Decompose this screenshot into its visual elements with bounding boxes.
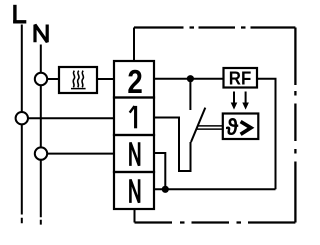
svg-text:2: 2 (127, 64, 142, 101)
RF receiver box RF (224, 68, 258, 89)
RF signal arrow 1 (231, 92, 238, 110)
switch fixed contact (189, 79, 191, 110)
terminal circle on L (16, 112, 28, 124)
svg-text:ϑ: ϑ (226, 114, 239, 140)
wire heater to terminal 2 (97, 78, 114, 80)
terminal N (lower) (114, 172, 154, 209)
wire terminal 2 to RF receiver (154, 78, 224, 80)
RF signal arrow 2 (242, 92, 249, 110)
wire N terminal to terminal N (41, 153, 114, 155)
device enclosure (dash-dot outline) (134, 28, 295, 223)
wire terminal 1 to switch pivot (154, 118, 191, 172)
terminal circle on N (heater feed) (35, 73, 47, 85)
wire terminal N bottom to enclosure (134, 209, 136, 223)
terminal circle on N (lower) (35, 147, 47, 159)
label N (35, 25, 47, 43)
label L (13, 5, 16, 24)
wire bottom N bus (154, 188, 276, 190)
terminal 1 (114, 98, 154, 136)
wire terminal 2 top to enclosure (133, 28, 135, 62)
heater element E1 (59, 67, 97, 93)
wire terminal N to bus (154, 153, 165, 189)
wire N (neutral line) (40, 45, 42, 225)
svg-text:RF: RF (229, 69, 252, 89)
wire L terminal to terminal 1 (22, 117, 114, 119)
wire N terminal to heater (41, 78, 59, 80)
thermostat box U2 (223, 114, 258, 141)
mechanical link to thermostat (197, 126, 223, 129)
wire L (phase line) (21, 25, 23, 224)
terminal 2 (114, 61, 154, 101)
junction (N bus) (162, 186, 169, 193)
switch blade S1 (191, 108, 205, 142)
junction (terminal 2 / switch tap) (187, 75, 194, 82)
wire RF to right bus (257, 79, 276, 190)
terminal N (upper) (114, 135, 154, 172)
